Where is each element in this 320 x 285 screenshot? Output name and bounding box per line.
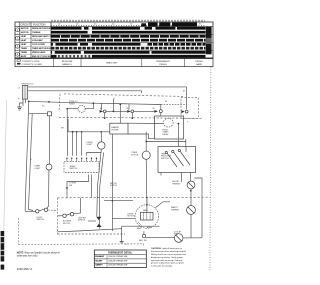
ground terminal xyxy=(120,242,124,243)
header cycle bar blob xyxy=(141,23,146,26)
wire S2 to dashed box xyxy=(48,209,58,212)
wire drop to contact B xyxy=(128,104,130,110)
svg-text:dangerous operation. Verify pr: dangerous operation. Verify proper xyxy=(151,256,183,259)
svg-text:CIRCUIT: CIRCUIT xyxy=(21,24,31,27)
svg-text:PRESS: PRESS xyxy=(159,64,167,66)
terminal drop 2 xyxy=(25,99,27,103)
svg-text:operation after servicing. Use: operation after servicing. Use only xyxy=(151,259,183,262)
node timer feed xyxy=(72,131,74,133)
svg-text:in the parts list catalog.: in the parts list catalog. xyxy=(151,265,173,268)
svg-text:229C1807 A: 229C1807 A xyxy=(17,267,33,271)
svg-text:RELAY: RELAY xyxy=(163,133,170,136)
wire B1 top line right xyxy=(128,122,163,124)
tick comb above border xyxy=(51,20,206,22)
node AB riser xyxy=(113,111,115,113)
wire C3 down xyxy=(190,214,192,237)
heater box B1 xyxy=(110,123,128,134)
node B1 feed xyxy=(119,103,121,105)
wire B1 bottom line right xyxy=(128,134,155,139)
svg-text:schematic form only.: schematic form only. xyxy=(17,254,38,257)
ground symbol xyxy=(17,107,21,110)
console dashed boundary top xyxy=(64,94,183,97)
wire C riser to door box xyxy=(161,103,187,105)
chart group separator 2 xyxy=(15,33,213,35)
node C1 bus xyxy=(101,131,103,133)
node jog xyxy=(93,102,95,104)
temp selector box B3 xyxy=(158,147,196,173)
centrifugal label stub xyxy=(88,220,96,222)
svg-text:HI-LIMIT: HI-LIMIT xyxy=(95,260,103,262)
svg-text:MOTOR: MOTOR xyxy=(21,32,29,34)
chart column line (circle col) xyxy=(19,22,21,58)
svg-text:LOW HEAT: LOW HEAT xyxy=(32,39,43,42)
page border dotted right xyxy=(210,67,211,272)
node timer bottom xyxy=(66,187,68,189)
sub-row line 4 xyxy=(20,53,51,55)
relay box B2 xyxy=(155,116,184,139)
blower switch circle 2 xyxy=(70,213,73,216)
contact B terminal xyxy=(132,117,134,119)
tick numbers xyxy=(58,23,202,25)
bar row 1 xyxy=(51,27,206,30)
svg-text:LIGHT: LIGHT xyxy=(87,144,93,146)
bar row 4 xyxy=(51,39,206,42)
circled number 3 xyxy=(16,44,20,48)
wire to start switch xyxy=(67,108,78,110)
wire C1 top xyxy=(100,132,102,142)
riser AB to top xyxy=(112,99,114,112)
svg-text:THERMO: THERMO xyxy=(171,210,180,212)
svg-text:SAFETY: SAFETY xyxy=(95,264,103,267)
wire TH1 right jog xyxy=(195,178,203,238)
svg-text:TUMBLE: TUMBLE xyxy=(32,32,41,34)
node neutral start xyxy=(28,101,30,103)
circuit/function row texts xyxy=(21,28,56,58)
svg-text:L250-30F OPEN AT 250F: L250-30F OPEN AT 250F xyxy=(108,264,128,267)
outlet thermostat C4 xyxy=(174,234,183,243)
chart column line (circuit col) xyxy=(30,22,32,58)
contacts open legend xyxy=(17,60,20,62)
wire B3 drop 2 xyxy=(181,173,183,183)
push-to-start switch dashed circle xyxy=(78,105,85,112)
timer feed bus xyxy=(68,131,110,133)
svg-text:SW: SW xyxy=(69,185,72,187)
svg-text:genuine replacement parts as g: genuine replacement parts as given xyxy=(151,262,185,265)
contact A arrow xyxy=(100,110,104,113)
legend divider 4 xyxy=(183,58,185,66)
bar row 2 xyxy=(51,31,206,34)
contact A terminal xyxy=(104,117,106,119)
svg-text:EXHAUST: EXHAUST xyxy=(95,255,105,258)
timer sequence chart outer border xyxy=(15,22,213,58)
page fold line left xyxy=(4,100,7,245)
timer bottom drop 2 xyxy=(91,175,93,198)
svg-text:LIGHT: LIGHT xyxy=(34,168,40,170)
wire C1 bottom xyxy=(97,149,102,216)
svg-text:M: M xyxy=(183,91,185,93)
svg-text:CONTACTS CLOSED: CONTACTS CLOSED xyxy=(22,63,43,66)
blower switch blade xyxy=(66,214,70,216)
relay coil dashed ellipse xyxy=(163,118,173,127)
svg-text:SWITCH: SWITCH xyxy=(78,220,86,222)
svg-text:TIMED DRY: TIMED DRY xyxy=(106,62,119,64)
wire C2 top xyxy=(145,132,147,151)
wire console bus xyxy=(93,103,160,104)
chart group separator 4 xyxy=(15,49,213,51)
svg-text:TIMER MOTOR RUN: TIMER MOTOR RUN xyxy=(32,48,52,50)
node timer c xyxy=(76,131,78,133)
wire relay drop xyxy=(177,124,179,147)
wire C4 left xyxy=(146,236,175,238)
contacts closed legend xyxy=(17,63,20,65)
blower switch riser xyxy=(74,198,81,214)
temp selector contact 3 xyxy=(178,149,180,151)
left margin vertical part number xyxy=(1,231,5,270)
wire timer vertical a xyxy=(72,132,74,156)
drop contact C to relay xyxy=(160,113,162,116)
door box contact circle xyxy=(185,110,188,113)
node right angle xyxy=(112,200,114,202)
wire B3 drop 1 xyxy=(160,173,162,176)
svg-text:L290-40F OPEN AT 290F: L290-40F OPEN AT 290F xyxy=(108,259,128,262)
second centrifugal feed xyxy=(99,153,103,229)
timer motor C2 xyxy=(142,151,150,159)
left vertical wire 1 xyxy=(25,101,35,211)
node timer d xyxy=(81,131,83,133)
circled number 4 xyxy=(16,52,20,56)
node TH1 bottom xyxy=(190,190,192,192)
timer terminal circles xyxy=(67,157,97,159)
header cycle bar A xyxy=(148,23,158,27)
svg-text:HEAT: HEAT xyxy=(21,39,27,42)
timer dashed box xyxy=(64,161,99,172)
sub-row line 2 xyxy=(20,37,51,39)
legend divider 1 xyxy=(52,58,54,66)
belt switch component xyxy=(142,234,145,237)
svg-text:disconnection when servicing c: disconnection when servicing controls. xyxy=(151,250,187,253)
header underline xyxy=(15,26,213,28)
riser contact C xyxy=(160,104,162,109)
svg-text:FUNCTION: FUNCTION xyxy=(33,24,46,27)
wire motor chord xyxy=(122,225,160,227)
safety thermostat C3 xyxy=(187,206,196,215)
svg-text:MOTOR: MOTOR xyxy=(21,28,29,30)
svg-text:PERMANENT: PERMANENT xyxy=(156,60,170,63)
svg-text:BELT SW: BELT SW xyxy=(139,240,147,242)
wire contact A to B xyxy=(106,110,127,112)
motor M1 circle xyxy=(135,205,159,229)
scan wash over bars area xyxy=(51,27,206,59)
svg-text:PRESS GARD: PRESS GARD xyxy=(32,51,46,54)
bar row 3 xyxy=(51,35,206,38)
door switch S2 circle 1 xyxy=(36,210,39,213)
console dashed boundary bottom xyxy=(59,117,202,118)
left vertical wire 2 xyxy=(29,114,33,211)
door switch S2 blade xyxy=(39,209,45,211)
bar row 5 xyxy=(51,43,141,46)
wire neutral rail xyxy=(28,101,94,103)
wire drop to contact A xyxy=(101,103,103,110)
motor top right diagonal xyxy=(156,202,171,208)
svg-text:HEAT: HEAT xyxy=(21,35,27,38)
outer dashed corner left xyxy=(18,218,20,245)
timer terminal ticks xyxy=(67,159,97,162)
chart group separator 3 xyxy=(15,41,213,43)
contact B drop xyxy=(131,113,133,118)
wire L1b rail xyxy=(28,91,142,93)
svg-text:PRESS: PRESS xyxy=(195,61,203,63)
svg-text:MOTOR: MOTOR xyxy=(63,223,71,225)
svg-text:FABRICS: FABRICS xyxy=(62,63,72,66)
wire start right jog xyxy=(85,103,93,109)
svg-text:TIMER: TIMER xyxy=(21,48,28,50)
svg-text:TIMER: TIMER xyxy=(21,52,28,54)
motor top wire xyxy=(146,198,148,213)
node neutral xyxy=(48,101,50,103)
tick scale row xyxy=(51,25,206,27)
contact C arrow xyxy=(154,110,158,113)
terminal drop 1 xyxy=(22,99,24,106)
wire start drop xyxy=(66,109,68,156)
blower switch circle 1 xyxy=(63,214,66,217)
svg-text:L140-10F OPEN AT 140F: L140-10F OPEN AT 140F xyxy=(108,255,128,258)
node in relay xyxy=(178,123,180,125)
svg-text:HEAT: HEAT xyxy=(21,43,27,46)
sub-row line 1 xyxy=(20,29,51,31)
contact B arrow xyxy=(127,110,131,113)
wire to temp switch xyxy=(146,141,186,143)
wire right drop b1 xyxy=(111,134,113,231)
svg-text:SWITCH: SWITCH xyxy=(37,219,45,221)
centrifugal switch arrows xyxy=(96,217,101,221)
bar row 6 xyxy=(51,47,206,50)
door box contact arrow xyxy=(181,110,185,113)
header cycle bar B xyxy=(159,23,170,27)
wire v3 lower xyxy=(47,170,49,209)
svg-text:THERMO: THERMO xyxy=(172,184,181,186)
wire B3 drop 3 xyxy=(190,173,192,182)
temp selector contact 2 xyxy=(172,150,174,152)
bar row 7 xyxy=(51,51,206,54)
indicator C1 xyxy=(98,142,105,149)
legend row border xyxy=(15,58,213,66)
node start left xyxy=(66,108,68,110)
timer bottom wire xyxy=(67,175,89,198)
bottom bus xyxy=(58,229,122,232)
motor inner diagonal xyxy=(138,222,142,226)
svg-text:TERM BLOCK: TERM BLOCK xyxy=(21,84,34,86)
wire C3 to C4 xyxy=(183,237,202,239)
node motor entry xyxy=(146,204,148,206)
svg-text:THERMOSTAT DETAIL: THERMOSTAT DETAIL xyxy=(108,251,133,254)
contact B circle xyxy=(131,110,134,113)
circled number 2 xyxy=(16,36,20,40)
svg-text:MAIN: MAIN xyxy=(143,209,148,212)
door switch S2 circle 2 xyxy=(44,208,47,211)
svg-text:SWITCH: SWITCH xyxy=(70,168,78,170)
legend divider 3 xyxy=(141,58,143,66)
bar row 8 xyxy=(51,55,57,58)
svg-text:CONTACTS OPEN: CONTACTS OPEN xyxy=(22,60,40,63)
svg-text:MOTOR: MOTOR xyxy=(131,154,139,156)
ground stub from terminal xyxy=(20,103,24,107)
temp selector feed xyxy=(185,147,187,153)
svg-text:START: START xyxy=(69,102,76,105)
wire L1 rail xyxy=(28,86,187,88)
svg-text:HOUSE: HOUSE xyxy=(112,129,119,131)
machine dashed left xyxy=(57,198,59,234)
temp selector contact 1 xyxy=(165,151,167,153)
contact A drop xyxy=(104,113,106,118)
wire L1 drop into door box xyxy=(186,87,188,110)
legend divider 2 xyxy=(80,58,82,66)
svg-text:SWITCH: SWITCH xyxy=(110,185,118,187)
node temp wire xyxy=(145,141,147,143)
hi-limit thermostat TH1 xyxy=(187,181,195,189)
branch to timer tick xyxy=(87,153,101,156)
lamp T1 circle xyxy=(46,164,52,170)
machine dashed boundary xyxy=(58,196,211,199)
console dashed left edge xyxy=(59,94,60,111)
door switch dashed box xyxy=(181,98,199,119)
vertical wire v3 upper xyxy=(48,116,50,164)
node motor top xyxy=(146,197,148,199)
svg-text:CAUTION: Label all wires prior: CAUTION: Label all wires prior to xyxy=(151,247,183,250)
svg-text:REGULAR: REGULAR xyxy=(62,60,73,63)
motor inner ticks xyxy=(144,212,151,220)
sub-row line 3 xyxy=(20,45,51,47)
chart column line (function col) xyxy=(50,22,52,58)
wire timer vertical b xyxy=(67,119,69,132)
junction box J1 xyxy=(48,112,52,116)
svg-text:SWITCH: SWITCH xyxy=(161,158,169,160)
svg-text:GARD: GARD xyxy=(196,63,203,66)
wire motor mid left xyxy=(112,218,135,220)
blower switch left stub xyxy=(58,215,63,217)
stub B2 to B3 xyxy=(185,139,187,147)
wire C2 to motor xyxy=(145,159,148,204)
wire left junction line xyxy=(29,113,48,115)
wire B1 top feed xyxy=(119,104,121,123)
wire contact B to C xyxy=(134,110,155,112)
header cycle bar C xyxy=(172,23,197,27)
belt switch drop xyxy=(143,231,145,234)
chart OFF column black xyxy=(206,27,212,55)
contact C circle xyxy=(159,110,162,113)
wire motor bottom left drop xyxy=(121,226,123,241)
svg-text:COOL DOWN: COOL DOWN xyxy=(32,44,45,46)
contact A circle xyxy=(103,110,106,113)
wire right angle xyxy=(104,200,133,202)
svg-text:NOTE: Race and parallel circui: NOTE: Race and parallel circuits shown i… xyxy=(17,252,61,255)
caution text block xyxy=(151,247,187,267)
circled number 1 xyxy=(16,28,20,32)
outer dashed bottom xyxy=(19,244,144,247)
svg-text:DRIVE MOTOR RUN: DRIVE MOTOR RUN xyxy=(32,28,51,30)
svg-text:MOTOR: MOTOR xyxy=(128,216,136,218)
machine dashed bottom xyxy=(58,233,126,235)
terminal block TB1 xyxy=(22,85,27,99)
wire TH1 to C3 xyxy=(190,189,192,206)
thermostat detail table xyxy=(94,250,146,268)
svg-text:Wiring errors can cause improp: Wiring errors can cause improper and xyxy=(151,253,187,256)
wire timer vertical d xyxy=(81,132,83,156)
svg-text:MAIN: MAIN xyxy=(137,227,142,230)
wire timer vertical c xyxy=(76,132,78,156)
motor inner rect xyxy=(141,212,154,220)
